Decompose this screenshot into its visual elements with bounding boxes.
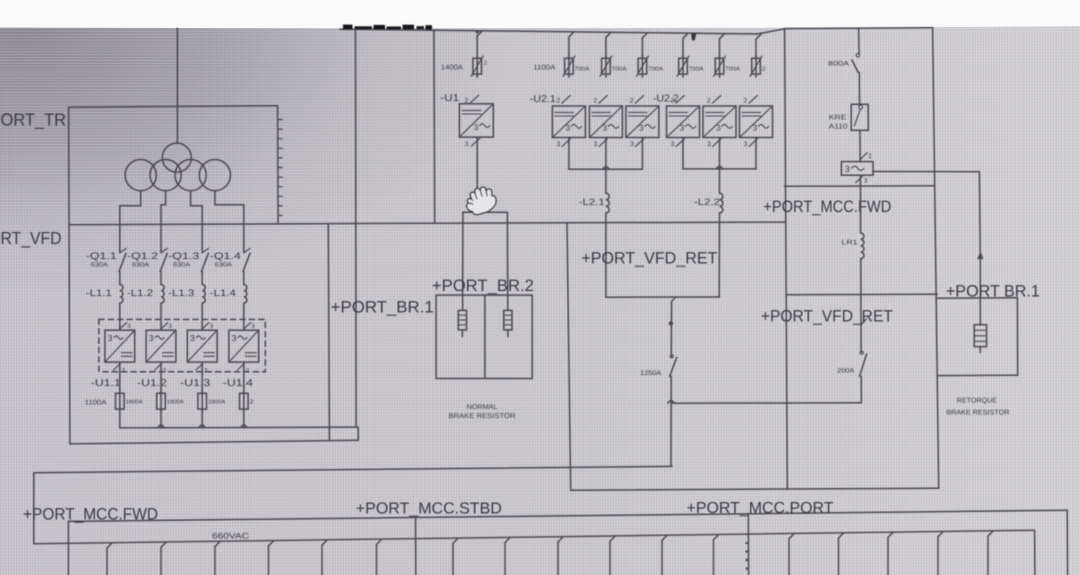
fuse on U2 branch 3: [638, 58, 647, 74]
wire: L2.1 down: [605, 213, 607, 297]
wire: L1.2 to U1.2: [160, 303, 162, 330]
wire: MCC branch drop x938: [938, 532, 943, 537]
pin 3 of U1.4: [244, 323, 250, 329]
inverter U2 block 2: [589, 106, 622, 138]
svg-text:1600A: 1600A: [126, 399, 143, 406]
wire: T1 secondary 2: [161, 191, 166, 253]
svg-text:-U2.2: -U2.2: [653, 93, 679, 104]
wire junction hop: [158, 425, 164, 428]
enclosure +PORT_VFD: [69, 223, 430, 225]
svg-text:2: 2: [593, 98, 597, 105]
pin 3 of U2 block 3: [636, 139, 644, 147]
fuse on U2 branch 6: [752, 58, 761, 74]
svg-text:3: 3: [232, 333, 237, 343]
svg-text:3: 3: [707, 141, 711, 148]
wire: U2 block 6 output: [755, 138, 757, 169]
svg-text:3: 3: [127, 323, 131, 330]
wire: fuse to DC bus: [201, 409, 203, 428]
svg-text:3: 3: [630, 141, 634, 148]
wire: MCC branch drop x453: [453, 538, 458, 543]
svg-text:3: 3: [108, 333, 113, 343]
svg-text:+PORT_VFD_RET: +PORT_VFD_RET: [581, 250, 717, 268]
wire: MCC branch drop x161: [161, 542, 166, 547]
inverter U1 (DC-AC): [459, 104, 493, 137]
wire: U2 block 4 output: [682, 138, 684, 169]
wire: U1.4 to fuse: [243, 362, 245, 393]
svg-text:-U1: -U1: [440, 93, 460, 104]
svg-text:3: 3: [251, 323, 255, 330]
wire: Q1.1 to L1.1: [119, 272, 121, 285]
wire: L1.1 to U1.1: [119, 303, 121, 330]
svg-text:-U1.3: -U1.3: [180, 378, 211, 389]
svg-text:700A: 700A: [689, 66, 704, 73]
svg-text:700A: 700A: [648, 66, 663, 73]
wire: DC collector bus: [120, 426, 358, 429]
wire: bus drop to enclosure corner: [357, 427, 359, 440]
choke L1.1: [120, 285, 123, 304]
wire: U2 block 1 output: [568, 138, 570, 170]
junction smudge on top rail: [692, 33, 697, 40]
pin 3 of U2 block 1: [562, 139, 570, 147]
svg-text:BRAKE RESISTOR: BRAKE RESISTOR: [946, 409, 1009, 416]
breaker Q1.3 630A: [202, 248, 208, 252]
svg-text:-U1.4: -U1.4: [223, 378, 254, 389]
brake resistor R3: [974, 325, 986, 347]
svg-text:630A: 630A: [91, 261, 109, 268]
wire: top feeder rail (middle cabinet top edge): [340, 29, 785, 34]
svg-text:+PORT_MCC.PORT: +PORT_MCC.PORT: [687, 500, 834, 517]
inverter U2 block 6: [740, 106, 773, 138]
wire: link to retorque resistor: [672, 402, 862, 405]
wire: MCC branch drop x505: [505, 537, 510, 542]
svg-text:+PORT_BR.2: +PORT_BR.2: [432, 277, 534, 295]
svg-text:-L1.1: -L1.1: [86, 288, 112, 299]
svg-text:-U2.1: -U2.1: [530, 94, 556, 105]
wire: drop to inverter U2 branch 2: [606, 32, 611, 37]
wire: U2 block 2 output: [605, 138, 607, 194]
svg-text:2: 2: [250, 399, 254, 406]
svg-text:3: 3: [753, 124, 758, 133]
wire: return collector: [606, 296, 719, 298]
pin 2 of U1.2: [155, 364, 162, 370]
svg-text:2: 2: [744, 98, 748, 105]
svg-text:-L2.1: -L2.1: [579, 197, 605, 207]
wire: MCC branch drop x713: [714, 535, 719, 540]
wire: T1 secondary 3: [191, 191, 203, 253]
svg-text:2: 2: [868, 153, 872, 160]
wire: starter output to retorque brake resistor: [873, 171, 979, 173]
wire: top rail right section: [785, 27, 933, 30]
pin 2 of U2 block 5: [712, 96, 720, 104]
svg-text:+PORT_TR: +PORT_TR: [0, 110, 66, 130]
wire: T1 secondary 4: [215, 191, 244, 253]
brake resistor R1: [458, 310, 466, 330]
svg-text:3: 3: [845, 164, 850, 174]
svg-text:+PORT_MCC.FWD: +PORT_MCC.FWD: [23, 505, 158, 523]
pin 3 of U1.2: [162, 323, 168, 329]
svg-text:+PORT_MCC.STBD: +PORT_MCC.STBD: [356, 501, 502, 518]
svg-text:1100A: 1100A: [533, 65, 555, 72]
svg-text:-L1.4: -L1.4: [210, 288, 236, 299]
wire: MCC branch drop x988: [988, 531, 993, 536]
wire: MCC branch drop x376: [377, 539, 382, 544]
wire: MCC branch drop x838: [839, 533, 844, 538]
wire: MCC branch drop x107: [107, 543, 112, 548]
title-block remnant (black dashes, cut off at top): [343, 25, 353, 30]
wire to choke LR1: [859, 175, 861, 233]
svg-text:630A: 630A: [173, 261, 191, 268]
inverter U2 block 4: [667, 106, 700, 138]
rectifier U1.2: [146, 330, 176, 362]
fuse F1.3: [198, 393, 207, 409]
pin 2 of inverter U1: [470, 95, 478, 103]
wire: MCC branch drop x215: [215, 541, 220, 546]
wire: 1250A switch to MCC rail: [670, 376, 672, 466]
junction dot: [669, 321, 673, 325]
svg-text:3: 3: [716, 124, 721, 133]
divider rail above +PORT_MCC.FWD: [784, 185, 934, 188]
dashed converter group box: [99, 319, 265, 371]
enclosure: MCC left edge: [33, 473, 35, 544]
fuse on U2 branch 4: [679, 58, 688, 74]
wire: Q1.2 to L1.2: [160, 272, 162, 285]
svg-text:3: 3: [864, 177, 868, 184]
inverter U2 block 3: [626, 106, 659, 138]
choke L1.2: [161, 285, 164, 304]
fuse 1400A on U1 feed: [473, 58, 482, 74]
wire: feeder to transformer T1: [176, 28, 178, 143]
wire: drop to inverter U2 branch 5: [720, 34, 725, 39]
svg-text:3: 3: [603, 124, 608, 133]
pin 3 of U2 block 4: [676, 139, 684, 147]
enclosure: drive cabinet (left edge): [433, 30, 436, 223]
wire: drop to inverter U2 branch 4: [683, 33, 688, 38]
wire: drop to inverter U2 branch 3: [642, 33, 647, 38]
svg-text:-Q1.3: -Q1.3: [168, 251, 199, 262]
svg-text:-Q1.1: -Q1.1: [86, 251, 117, 262]
wire: PORT feeder drop: [747, 514, 749, 575]
svg-text:3: 3: [557, 141, 561, 148]
pin 3 of U2 block 6: [749, 139, 757, 147]
svg-text:200A: 200A: [837, 367, 855, 374]
svg-text:1100A: 1100A: [85, 399, 107, 406]
brake resistor R2: [504, 310, 512, 330]
svg-text:-U1.2: -U1.2: [137, 378, 168, 389]
divider rail of right cabinet: [787, 293, 937, 296]
wire: FWD feeder drop: [67, 521, 69, 575]
svg-text:+PORT_VFD_RET: +PORT_VFD_RET: [761, 308, 893, 326]
wire: MCC branch drop x268: [269, 541, 274, 546]
svg-text:-Q1.2: -Q1.2: [127, 251, 158, 262]
wire to soft starter: [859, 130, 861, 161]
svg-text:1600A: 1600A: [167, 399, 184, 406]
enclosure: MCC upper rail: [34, 466, 672, 472]
svg-text:2: 2: [762, 66, 766, 73]
rectifier U1.3: [187, 330, 217, 362]
wire: bus end drop: [1034, 530, 1036, 575]
enclosure: long horizontal rail y224: [430, 222, 785, 223]
breaker 800A: [856, 54, 859, 57]
hand cursor (screen pointer): [463, 184, 499, 216]
wire: U1.3 to fuse: [201, 362, 203, 393]
pin 3 of inverter U1: [471, 138, 480, 146]
choke L1.3: [202, 285, 205, 304]
svg-text:3: 3: [639, 124, 644, 133]
bus 660VAC: [34, 530, 1035, 544]
svg-text:LR1: LR1: [842, 240, 858, 247]
wire: MCC branch drop x888: [888, 532, 893, 537]
off-page arrow (to BR.1): [978, 252, 983, 259]
wire: MCC feeder rail: [68, 510, 1067, 521]
svg-text:3: 3: [680, 124, 685, 133]
enclosure +PORT_TR: [69, 106, 277, 108]
choke L2.2: [720, 193, 723, 213]
pin 2 of U2 block 2: [599, 96, 607, 104]
wire: MCC branch drop x662: [662, 535, 667, 540]
wire: drop from top rail: [858, 28, 860, 53]
svg-text:+PORT_VFD: +PORT_VFD: [0, 228, 62, 248]
svg-text:1400A: 1400A: [441, 65, 463, 72]
svg-text:3: 3: [594, 141, 598, 148]
choke LR1: [861, 233, 864, 259]
breaker Q1.2 630A: [161, 248, 167, 252]
wire: L1.3 to U1.3: [201, 303, 203, 330]
svg-text:630A: 630A: [215, 261, 233, 268]
svg-text:3: 3: [169, 323, 173, 330]
svg-text:2: 2: [556, 98, 560, 105]
svg-text:700A: 700A: [725, 66, 740, 73]
rectifier U1.4: [229, 330, 259, 362]
wire: LR1 down to 200A switch: [860, 259, 862, 353]
inverter U2 block 5: [703, 106, 736, 138]
svg-text:BRAKE RESISTOR: BRAKE RESISTOR: [449, 413, 516, 420]
wire to contactor KRE: [858, 72, 860, 104]
svg-text:2: 2: [707, 98, 711, 105]
fuse on U2 branch 5: [715, 58, 724, 74]
pin 3 of U2 block 5: [713, 139, 721, 147]
fuse F1.1: [116, 393, 125, 409]
enclosure: drive cabinet (right edge): [785, 29, 788, 490]
wire: U2 block 3 output: [641, 138, 643, 170]
svg-text:3: 3: [190, 333, 195, 343]
svg-text:700A: 700A: [612, 66, 627, 73]
wire junction hop: [199, 425, 205, 428]
pin 3 of U1.1: [120, 323, 126, 329]
wire: main feeder from top rail to +PORT_VFD: [355, 29, 358, 427]
wire: MCC branch drop x322: [322, 540, 327, 545]
enclosure: right cabinet bottom edge: [571, 488, 938, 490]
svg-text:NORMAL: NORMAL: [467, 404, 498, 411]
svg-text:3: 3: [149, 333, 154, 343]
wire: BR.1 feeder down to arrow: [978, 172, 981, 252]
svg-text:-U1.1: -U1.1: [91, 378, 122, 389]
pin 2 of U2 block 1: [562, 96, 570, 104]
soft starter 3~: [841, 162, 873, 176]
svg-text:RETORQUE: RETORQUE: [957, 398, 997, 405]
svg-text:3: 3: [465, 141, 469, 148]
pin 2 of U1.3: [196, 364, 203, 370]
enclosure: MCC right edge: [1066, 510, 1068, 575]
wire: fuse to DC bus: [243, 409, 245, 428]
wire: L2.2 down: [718, 213, 720, 297]
pin 2 of soft starter: [860, 153, 867, 160]
wire: fuse to DC bus: [160, 409, 162, 428]
pin 3 of soft starter: [856, 176, 863, 183]
wire: splitter to brake resistors: [463, 211, 508, 213]
svg-text:KRE: KRE: [829, 115, 847, 122]
fuse on U2 branch 2: [602, 58, 611, 74]
pin 2 of U2 block 6: [749, 96, 757, 104]
fuse on U2 branch 1: [565, 58, 574, 74]
wire: U1 output: [476, 137, 478, 212]
pin 3 of U2 block 2: [599, 139, 607, 147]
wire: U1.1 to fuse: [119, 362, 121, 393]
wire: dropper to BR2 resistor 2: [506, 212, 508, 310]
fuse F1.4: [240, 393, 249, 409]
wire: fuse to DC bus: [119, 409, 121, 428]
choke L1.4: [244, 285, 247, 304]
svg-text:3: 3: [210, 323, 214, 330]
wire: MCC branch drop x558: [558, 537, 563, 542]
wire: 200A switch to link: [860, 376, 862, 403]
svg-text:+PORT_MCC.FWD: +PORT_MCC.FWD: [763, 198, 891, 216]
pin 2 of U1.1: [114, 364, 121, 370]
enclosure +PORT_VFD_RET (left edge): [567, 223, 571, 490]
svg-text:3: 3: [671, 141, 675, 148]
wire: Q1.4 to L1.4: [243, 272, 245, 285]
wire: T1 secondary 1: [120, 191, 141, 253]
svg-text:800A: 800A: [828, 61, 850, 68]
wire: Q1.3 to L1.3: [201, 272, 203, 285]
svg-text:660VAC: 660VAC: [212, 532, 249, 541]
svg-text:3: 3: [744, 141, 748, 148]
svg-text:1250A: 1250A: [640, 370, 662, 377]
svg-text:A110: A110: [829, 123, 848, 130]
fuse F1.2: [157, 393, 166, 409]
inverter U2 block 1: [552, 106, 585, 138]
svg-text:2: 2: [484, 60, 487, 66]
wire: drop to inverter U2 branch 1: [569, 32, 574, 37]
pin 2 of U1.4: [238, 364, 245, 370]
wire: drop to inverter U2 branch 6: [756, 34, 761, 39]
wire: L1.4 to U1.4: [243, 303, 245, 330]
wire: U2.2 output bus: [683, 168, 756, 170]
rectifier U1.1: [105, 330, 135, 362]
choke L2.1: [606, 193, 609, 213]
pin 3 of U1.3: [203, 323, 209, 329]
svg-text:-L1.2: -L1.2: [127, 288, 153, 299]
disconnect switch 1250A: [670, 357, 677, 376]
wire: U2 block 5 output: [719, 138, 721, 194]
wire: return drop with hop: [672, 297, 676, 301]
pin 2 of U2 block 3: [635, 96, 643, 104]
pin 2 of U2 block 4: [676, 96, 684, 104]
svg-text:700A: 700A: [575, 66, 590, 73]
svg-text:630A: 630A: [132, 261, 150, 268]
wire: U2.1 output bus: [569, 168, 643, 170]
wire junction hop: [241, 425, 247, 428]
svg-text:-Q1.4: -Q1.4: [210, 251, 241, 262]
svg-text:3: 3: [474, 123, 479, 132]
wire: STBD feeder drop: [415, 518, 417, 575]
white page strip at top: [0, 0, 1080, 28]
enclosure +PORT_BR.2: [436, 295, 532, 378]
wire: MCC branch drop x610: [610, 536, 615, 541]
svg-text:-L1.3: -L1.3: [168, 288, 194, 299]
wire: arrow to resistor R3: [979, 258, 981, 325]
transformer T1 (5-winding): [162, 143, 191, 172]
contactor KRE A110: [851, 104, 868, 130]
wire: dropper to BR2 resistor 1: [462, 212, 464, 310]
enclosure retorque brake resistor: [937, 297, 1017, 299]
disconnect switch 200A: [860, 354, 867, 376]
svg-text:1600A: 1600A: [208, 399, 225, 406]
breaker Q1.4 630A: [244, 248, 250, 252]
svg-text:-L2.2: -L2.2: [694, 197, 720, 207]
wire: U1.2 to fuse: [160, 362, 162, 393]
svg-text:3: 3: [566, 124, 571, 133]
wire: drop to inverter U1: [477, 31, 482, 36]
svg-text:+PORT_BR.1: +PORT_BR.1: [331, 299, 434, 317]
breaker Q1.1 630A: [120, 248, 126, 252]
enclosure: right cabinet right edge: [933, 28, 939, 489]
wire: MCC branch drop x789: [789, 534, 794, 539]
svg-text:2: 2: [630, 98, 634, 105]
